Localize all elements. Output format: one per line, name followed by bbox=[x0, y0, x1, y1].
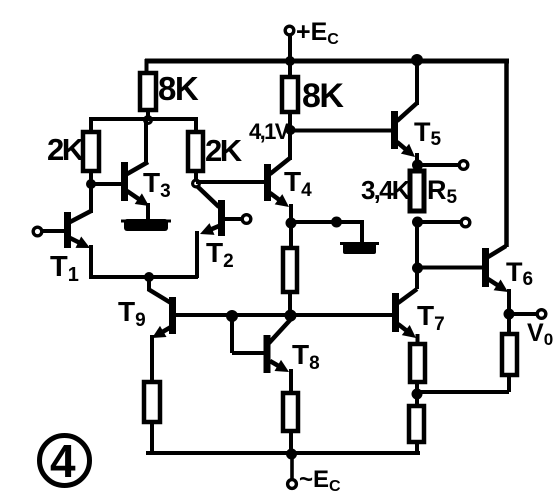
wire -Ec stub bbox=[290, 454, 294, 479]
wire bottom link right bbox=[415, 390, 509, 394]
node 4.1V bbox=[286, 125, 296, 135]
svg-text:4,1V: 4,1V bbox=[249, 119, 290, 144]
resistor below T8 bbox=[283, 393, 298, 431]
wire T9 emitter down bbox=[150, 335, 154, 383]
wire drop to 8K left bbox=[145, 59, 149, 74]
resistor Vo load bbox=[507, 314, 511, 335]
wire T6 base bbox=[417, 266, 482, 270]
wire T5 emitter stub bbox=[415, 153, 419, 166]
wire to Vo terminal bbox=[509, 312, 538, 316]
wire mid ground drop bbox=[360, 220, 364, 244]
wire T3 emitter stub bbox=[146, 203, 150, 221]
junction tail bbox=[144, 272, 154, 282]
wire +Ec stub bbox=[288, 35, 292, 61]
wire to terminal a bbox=[417, 163, 459, 167]
wire T4 base bbox=[196, 180, 264, 184]
svg-text:2K: 2K bbox=[205, 133, 243, 168]
wire right rail bbox=[504, 59, 509, 247]
resistor T9 emitter bbox=[144, 382, 160, 422]
wire T8 base down bbox=[230, 316, 234, 353]
svg-text:3,4K: 3,4K bbox=[361, 175, 411, 205]
junction right link bbox=[412, 389, 423, 400]
wire 8K left bottom stub bbox=[146, 110, 150, 119]
wire top rail bbox=[145, 59, 509, 64]
wire T8 emitter stub bbox=[289, 369, 293, 394]
wire bottom rail bbox=[146, 451, 420, 455]
wire T3 base bbox=[91, 182, 122, 186]
svg-text:8K: 8K bbox=[158, 70, 199, 107]
transistor T5 bbox=[391, 111, 398, 149]
resistor 2K left bbox=[83, 132, 99, 171]
wire bus to 2K resistors bbox=[89, 117, 198, 121]
node right mirror bbox=[193, 180, 200, 187]
transistor T8 bbox=[264, 335, 271, 373]
resistor 8K left bbox=[140, 73, 156, 110]
terminal +Ec bbox=[285, 26, 294, 35]
svg-text:2K: 2K bbox=[47, 132, 85, 167]
wire tail of diff pair bbox=[89, 275, 198, 279]
wire bottom right stub bbox=[415, 442, 419, 455]
resistor T7 emitter bbox=[410, 344, 425, 382]
resistor R5 bbox=[410, 171, 424, 211]
junction T5 collector on rail bbox=[411, 54, 423, 66]
wire centre resistor bottom bbox=[288, 292, 292, 316]
junction centre resistor bottom bbox=[285, 310, 297, 322]
junction -Ec bbox=[286, 449, 297, 460]
transistor T1 bbox=[33, 227, 42, 236]
junction T5 emitter / R5 top bbox=[412, 160, 423, 171]
wire long base bus T9-T7 bbox=[176, 313, 392, 317]
wire 8K centre bottom stub bbox=[288, 112, 292, 131]
wire left bottom stub bbox=[150, 422, 154, 455]
junction mid ground wire bbox=[331, 217, 342, 228]
wire T5 base bbox=[290, 129, 391, 133]
wire 2K right bottom stub bbox=[194, 171, 198, 183]
node under 8K left bbox=[145, 117, 152, 124]
junction T6 base bbox=[412, 263, 423, 274]
junction T8 base tap bbox=[226, 310, 238, 322]
terminal Vo bbox=[537, 310, 546, 319]
wire Vo load bottom bbox=[507, 375, 511, 392]
terminal -Ec bbox=[288, 480, 297, 489]
ground mid bbox=[343, 242, 376, 254]
transistor T9 bbox=[169, 297, 176, 334]
svg-text:4: 4 bbox=[50, 435, 76, 487]
junction at +Ec rail bbox=[285, 56, 295, 66]
transistor T6 bbox=[482, 248, 489, 287]
junction Vo node bbox=[504, 309, 515, 320]
wire drop to 2K right bbox=[194, 117, 198, 133]
junction R5 bottom bbox=[412, 217, 423, 228]
resistor centre (T4 emitter) bbox=[289, 223, 293, 249]
node left mirror bbox=[86, 179, 96, 189]
terminal a bbox=[459, 161, 468, 170]
wire R5 bottom to T7 collector bbox=[415, 222, 419, 289]
wire T7 emitter stub bbox=[416, 334, 420, 345]
wire between right resistors bbox=[415, 382, 419, 407]
transistor T2 bbox=[242, 215, 251, 224]
resistor bottom right bbox=[409, 406, 424, 442]
transistor T4 bbox=[264, 164, 271, 201]
resistor 2K right bbox=[188, 132, 203, 171]
wire T4 emitter down bbox=[289, 204, 293, 224]
wire T9 collector bbox=[147, 277, 151, 291]
junction T4 emitter bbox=[286, 218, 297, 229]
wire to terminal b bbox=[417, 220, 461, 224]
svg-text:8K: 8K bbox=[302, 77, 344, 115]
figure number circle 4 bbox=[40, 436, 90, 486]
wire drop to 2K left bbox=[89, 117, 93, 133]
wire T8 base across bbox=[232, 351, 264, 355]
transistor T7 bbox=[392, 293, 399, 332]
transistor T3 bbox=[121, 162, 128, 201]
wire below T8 resistor bbox=[289, 431, 293, 455]
terminal b bbox=[461, 218, 470, 227]
ground under T3 bbox=[124, 219, 168, 231]
resistor 8K centre bbox=[288, 61, 292, 78]
wire 2K left bottom stub bbox=[89, 171, 93, 184]
wire to mid ground bbox=[291, 220, 362, 224]
